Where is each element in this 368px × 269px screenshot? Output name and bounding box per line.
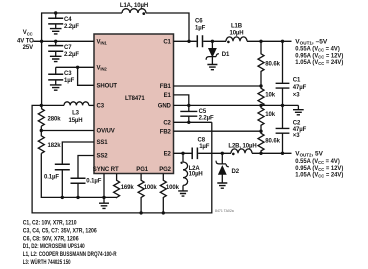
ground symbol right [293, 105, 304, 114]
wire rail segment to OV/UV node [40, 126, 42, 130]
capacitor C3 [48, 67, 74, 90]
svg-text:SYNC: SYNC [93, 167, 110, 173]
node junction VOUT1/C1 cap [281, 40, 284, 43]
wire VIN2 line [56, 66, 94, 68]
svg-text:C6: C6 [195, 19, 203, 25]
svg-text:10µH: 10µH [229, 31, 243, 37]
node VOUT2 text block [295, 152, 343, 179]
svg-text:169k: 169k [121, 185, 135, 191]
svg-text:C1: C1 [163, 40, 171, 46]
svg-text:RT: RT [111, 167, 119, 173]
node junction D1 top [211, 40, 214, 43]
svg-text:VOUT2, 5V: VOUT2, 5V [295, 152, 323, 158]
resistor 280k [38, 109, 61, 127]
svg-text:×3: ×3 [293, 93, 300, 99]
node junction D2 top [221, 152, 224, 155]
node junction PG1 / bottom rail [139, 211, 142, 214]
resistor PG1 pull 100k [138, 174, 157, 213]
node junction VOUT2/80.6k [259, 152, 262, 155]
capacitor SS2 0.1uF [71, 178, 102, 197]
svg-text:1.05A (VCC = 24V): 1.05A (VCC = 24V) [295, 60, 343, 66]
svg-text:C2: C2 [293, 121, 301, 127]
resistor 182k [38, 131, 61, 154]
svg-text:4V TO: 4V TO [17, 38, 34, 44]
svg-text:15µH: 15µH [68, 118, 82, 124]
svg-text:L3: L3 [72, 111, 80, 117]
wire E2 line left of C8 [174, 152, 192, 154]
wire SYNC pin down [103, 174, 105, 198]
svg-text:2.2µF: 2.2µF [64, 52, 79, 58]
svg-text:C1, C2: 10V, X7R, 1210: C1, C2: 10V, X7R, 1210 [23, 221, 77, 227]
svg-text:×3: ×3 [293, 133, 300, 139]
wire FB2 line [174, 130, 262, 132]
node junction GND/divider mid [259, 104, 262, 107]
note component table [23, 221, 117, 266]
wire left rail upper [41, 41, 43, 108]
svg-text:100k: 100k [144, 185, 158, 191]
node junction FB1/divider [259, 84, 262, 87]
svg-text:L1A, 10µH: L1A, 10µH [120, 3, 148, 9]
node junction VCC/C7 [54, 40, 57, 43]
svg-text:C3: C3 [64, 71, 72, 77]
svg-text:C4: C4 [64, 17, 72, 23]
svg-text:25V: 25V [23, 45, 33, 51]
svg-text:80.6k: 80.6k [265, 138, 280, 144]
svg-text:2.2µF: 2.2µF [64, 24, 79, 30]
svg-text:10k: 10k [265, 112, 275, 118]
capacitor C1 output [276, 41, 307, 105]
svg-text:FB2: FB2 [160, 129, 172, 135]
wire OV/UV line [41, 130, 94, 132]
capacitor C7 [48, 41, 79, 61]
capacitor C8 [192, 138, 210, 160]
svg-text:FB1: FB1 [160, 84, 172, 90]
inductor L3 [64, 102, 89, 124]
node junction SS2 cap / ground line [76, 196, 79, 199]
node junction OV/UV divider [40, 129, 43, 132]
resistor chain 80.6k top [258, 41, 281, 86]
resistor R RT 169k [104, 174, 134, 198]
svg-text:0.1µF: 0.1µF [86, 179, 101, 185]
svg-text:80.6k: 80.6k [265, 62, 280, 68]
node junction VOUT1/80.6k [259, 40, 262, 43]
svg-text:C8: C8 [198, 138, 206, 144]
svg-text:8471 TA02a: 8471 TA02a [215, 209, 234, 213]
wire C1 pin line left of C6 [174, 40, 197, 42]
diode D1 schottky [206, 41, 230, 69]
node junction C1 pin / L1A rail [187, 40, 190, 43]
node junction VCC/top-rail [40, 40, 43, 43]
svg-text:LT8471: LT8471 [125, 96, 145, 102]
svg-text:0.95A (VCC = 12V): 0.95A (VCC = 12V) [295, 166, 343, 172]
resistor PG2 pull 100k [160, 174, 179, 213]
node junction FB2/divider [259, 130, 262, 133]
svg-text:182k: 182k [48, 143, 62, 149]
ground symbol main [99, 197, 109, 208]
wire top rail right segment down to C1 pin [146, 13, 189, 41]
svg-text:L3: WÜRTH 744025 150: L3: WÜRTH 744025 150 [23, 259, 71, 266]
svg-text:D1: D1 [222, 52, 230, 58]
node VCC input text [17, 30, 34, 51]
svg-text:0.95A (VCC = 12V): 0.95A (VCC = 12V) [295, 53, 343, 59]
svg-text:VIN2: VIN2 [97, 66, 108, 72]
svg-text:E1: E1 [164, 93, 172, 99]
inductor L1B [226, 24, 247, 44]
svg-text:D2: D2 [232, 169, 240, 175]
svg-text:0.55A (VCC = 4V): 0.55A (VCC = 4V) [295, 159, 340, 165]
node junction left rail / L3 [40, 104, 43, 107]
svg-text:1µF: 1µF [64, 78, 75, 84]
node junction top rail / C4 [54, 11, 57, 14]
inductor L1A [120, 3, 148, 15]
svg-text:C1: C1 [293, 78, 301, 84]
svg-text:SHOUT: SHOUT [97, 84, 118, 90]
svg-text:PG2: PG2 [159, 167, 171, 173]
svg-text:OV/UV: OV/UV [97, 129, 115, 135]
wire L1B to VOUT1 [247, 40, 292, 42]
wire C8 to L2B [198, 152, 231, 154]
svg-text:VIN1: VIN1 [97, 40, 108, 46]
svg-text:SS2: SS2 [97, 154, 109, 160]
svg-text:GND: GND [158, 104, 172, 110]
svg-text:PG1: PG1 [136, 167, 148, 173]
capacitor C4 [48, 13, 79, 34]
wire L2B to VOUT2 [252, 152, 292, 154]
svg-text:C5: C5 [199, 109, 207, 115]
svg-text:E2: E2 [164, 152, 172, 158]
inductor L2B [228, 143, 256, 155]
svg-text:280k: 280k [48, 117, 62, 123]
inductor L2A [178, 153, 202, 196]
resistor 10k upper [258, 86, 276, 106]
capacitor C6 [195, 19, 206, 48]
diode D2 schottky [216, 153, 240, 188]
wire SS1 line [62, 142, 94, 164]
svg-text:0.55A (VCC = 4V): 0.55A (VCC = 4V) [295, 47, 340, 53]
svg-text:C3, C4, C5, C7: 35V, X7R, 1206: C3, C4, C5, C7: 35V, X7R, 1206 [23, 228, 98, 234]
svg-text:C6, C8: 50V, X7R, 1206: C6, C8: 50V, X7R, 1206 [23, 236, 79, 242]
wire VCC feed to VIN1 [33, 40, 94, 42]
svg-text:D1, D2: MICROSEMI UPS140: D1, D2: MICROSEMI UPS140 [23, 244, 85, 250]
node junction GND/output caps [281, 104, 284, 107]
node junction E2/L2A [181, 152, 184, 155]
node junction C2 line / C5 [187, 121, 190, 124]
svg-text:0.1µF: 0.1µF [44, 175, 59, 181]
wire C2 pin line [174, 121, 212, 123]
resistor chain 80.6k bottom [258, 131, 281, 153]
node junction ground line / SYNC [102, 196, 105, 199]
svg-text:C3: C3 [97, 104, 105, 110]
svg-text:1µF: 1µF [195, 26, 206, 32]
wire C3 pin line [41, 104, 64, 106]
svg-text:100k: 100k [166, 185, 180, 191]
wire SS2 line [78, 156, 94, 178]
wire SHOUT stub [78, 67, 94, 85]
wire L3 to IC [89, 104, 94, 106]
svg-text:1µF: 1µF [199, 144, 210, 150]
node junction VIN2/SHOUT stub [76, 66, 79, 69]
node junction SS1 cap / ground line [61, 196, 64, 199]
capacitor C5 [180, 105, 214, 122]
wire FB1 line [174, 85, 262, 87]
capacitor SS1 0.1uF [44, 164, 70, 197]
wire C3-node left vertical and bottom rail [32, 105, 212, 212]
op-amp U1 LT8471 IC body [94, 34, 174, 174]
svg-text:VCC: VCC [23, 30, 33, 36]
node junction E1/GND line [187, 104, 190, 107]
svg-text:C2: C2 [163, 121, 171, 127]
svg-text:1.05A (VCC = 24V): 1.05A (VCC = 24V) [295, 173, 343, 179]
svg-text:L1, L2: COOPER BUSSMANN DRQ74-: L1, L2: COOPER BUSSMANN DRQ74-100-R [23, 252, 117, 258]
resistor 10k lower [258, 105, 276, 131]
svg-text:10k: 10k [265, 93, 275, 99]
wire E1 stub [174, 95, 189, 106]
svg-text:C7: C7 [64, 45, 72, 51]
wire left rail lower to ground line [41, 153, 104, 197]
wire C6 to L1B [203, 40, 226, 42]
node VOUT1 text block [295, 39, 343, 66]
wire top rail left segment [42, 13, 122, 41]
svg-text:SS1: SS1 [97, 140, 109, 146]
capacitor C2 output [276, 105, 307, 153]
node junction VOUT2/C2 cap [281, 152, 284, 155]
wire GND pin line [174, 104, 299, 106]
svg-text:VOUT1, –5V: VOUT1, –5V [295, 39, 327, 45]
svg-text:10µH: 10µH [189, 172, 203, 178]
svg-text:L2B, 10µH: L2B, 10µH [228, 143, 256, 149]
svg-text:47µF: 47µF [293, 85, 307, 91]
svg-text:L1B: L1B [231, 24, 243, 30]
svg-text:2.2µF: 2.2µF [199, 116, 214, 122]
svg-text:47µF: 47µF [293, 127, 307, 133]
node junction PG2 / bottom rail [162, 211, 165, 214]
